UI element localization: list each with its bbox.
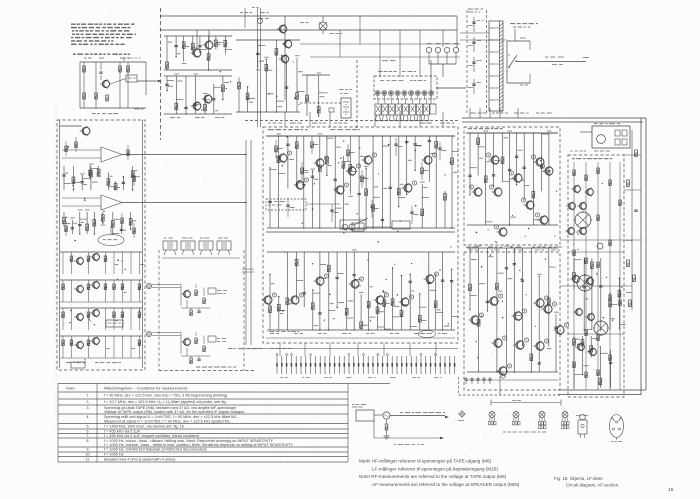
svg-text:f = 1400 kHz, 30% mod., via du: f = 1400 kHz, 30% mod., via dummy ant. f… (104, 424, 185, 428)
svg-text:f = 10.7 MHz, dev = ±22.5 kHz,: f = 10.7 MHz, dev = ±22.5 kHz, U₉ = U₉ t… (104, 400, 227, 404)
svg-text:Spenning målt ved signal U = 1: Spenning målt ved signal U = 1mV/75Ω, f … (104, 415, 238, 419)
svg-text:f = 1000 Hz: f = 1000 Hz (104, 452, 124, 456)
svg-text:AF-measurements are referred t: AF-measurements are referred to the volt… (372, 482, 520, 487)
svg-text:1.: 1. (87, 394, 90, 398)
svg-text:LF-målinger refererer til spen: LF-målinger refererer til spenningen på … (372, 465, 498, 471)
svg-text:6.: 6. (87, 429, 90, 433)
svg-text:f = 90 MHz, dev = ±22.5 kHz, G: f = 90 MHz, dev = ±22.5 kHz, Gen.imp = 7… (104, 394, 228, 398)
svg-text:Belastet med 4 ohm (Loaded wit: Belastet med 4 ohm (Loaded with 4 ohms) (104, 457, 176, 461)
svg-text:Fig. 18. Skjema, LF-deler.: Fig. 18. Skjema, LF-deler. (554, 476, 604, 481)
svg-text:7.: 7. (87, 434, 90, 438)
svg-text:f = 455 kHz via 0.1μF, stoppet: f = 455 kHz via 0.1μF, stoppet oscillato… (104, 434, 200, 438)
svg-text:11.: 11. (86, 457, 91, 461)
svg-text:3.: 3. (87, 406, 90, 410)
svg-text:Merk! HF-målinger refererer ti: Merk! HF-målinger refererer til spenning… (359, 458, 492, 464)
svg-text:Note! RF-measurements are refe: Note! RF-measurements are referred to th… (359, 474, 507, 479)
svg-text:5.: 5. (87, 424, 90, 428)
svg-text:9.: 9. (87, 448, 90, 452)
svg-text:8.: 8. (87, 439, 90, 443)
svg-text:10.: 10. (86, 452, 91, 456)
svg-text:2.: 2. (87, 400, 90, 404)
svg-text:15: 15 (668, 487, 674, 493)
svg-text:f = 1000 Hz, volume - bass - t: f = 1000 Hz, volume - bass - treble in m… (104, 443, 293, 447)
svg-text:Index: Index (66, 387, 75, 391)
svg-text:Målebetingelsen – Conditions f: Målebetingelsen – Conditions for measure… (104, 386, 188, 391)
svg-text:Measured at signal U = 1mV/75Ω: Measured at signal U = 1mV/75Ω, f = 90 M… (104, 419, 231, 423)
svg-text:4.: 4. (87, 415, 90, 419)
svg-text:f = 1000 Hz, C409/C410 frakobl: f = 1000 Hz, C409/C410 frakoblet (C409/C… (104, 448, 207, 452)
svg-text:Circuit diagram, AF-section.: Circuit diagram, AF-section. (566, 483, 619, 488)
svg-text:f = 455 kHz via 0.1μF: f = 455 kHz via 0.1μF (104, 429, 141, 433)
